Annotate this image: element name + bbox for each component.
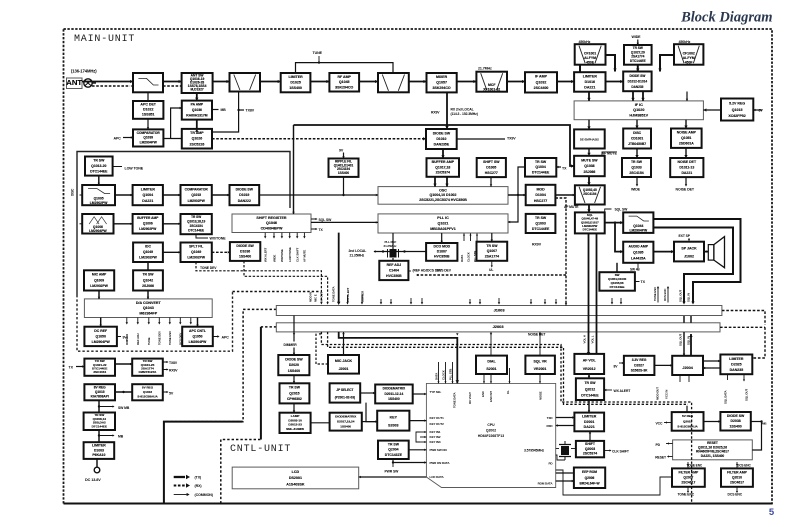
block RF AMP Q1045 xyxy=(329,73,359,92)
wire J2004 to limiter a xyxy=(703,360,720,362)
arrowhead mute 450 xyxy=(587,182,590,185)
wire IFIC to NOISE AMP xyxy=(685,120,687,129)
wire limiter d2025 pin2 xyxy=(743,374,745,380)
arrowhead deemph mute xyxy=(587,153,590,156)
block TR SW Q1008-14 xyxy=(84,413,115,431)
wire refadj label stub xyxy=(408,270,411,272)
svg-text:21.7MHz: 21.7MHz xyxy=(478,67,492,71)
svg-text:J2004: J2004 xyxy=(682,366,693,370)
arrowhead buf osc b xyxy=(445,184,448,187)
wire q1024 tx8v xyxy=(163,361,167,363)
svg-text:(114.3 - 152.3MHz): (114.3 - 152.3MHz) xyxy=(451,112,478,116)
wire audio amp in xyxy=(615,223,623,252)
svg-text:RX9V: RX9V xyxy=(532,243,542,247)
wire IFIC to DISC xyxy=(636,120,638,129)
wire tx sw out xyxy=(635,281,640,283)
junction osc mod xyxy=(517,194,519,196)
block FILTER AMP Q2007 xyxy=(672,468,705,486)
arrowhead q2012 to afvol xyxy=(588,375,590,377)
wire MIXER to MCF xyxy=(457,81,477,83)
wire audio sw4b stub xyxy=(637,263,639,268)
legend common arrowhead xyxy=(187,493,190,496)
wire sql down thick xyxy=(588,233,590,354)
svg-text:LOW TONE: LOW TONE xyxy=(125,167,144,171)
wire NOISE DET stub xyxy=(685,177,687,185)
main/cntl solid step border xyxy=(164,422,243,504)
wire TRSW1033 wide stub xyxy=(636,177,638,186)
antenna connector ANT xyxy=(66,78,82,89)
arrowhead bar1 feed b xyxy=(421,302,423,304)
arrowhead into IF AMP xyxy=(522,80,525,83)
wire BUF1006 to TRSW xyxy=(163,223,181,225)
wire TRSW to LPF1005 xyxy=(98,176,100,185)
svg-text:VCC: VCC xyxy=(656,422,664,426)
svg-text:VCC IN: VCC IN xyxy=(665,390,669,399)
wire jp down xyxy=(366,403,377,422)
wire lowtone label xyxy=(113,166,122,168)
block 5V REG Q1016 xyxy=(132,384,163,400)
arrowhead q2015 lamp xyxy=(293,411,295,413)
main unit bottom solid border xyxy=(64,503,773,505)
wire tx into q1004 xyxy=(556,166,561,168)
block LIMITER D1025 xyxy=(281,73,311,92)
wire bar1 feed a xyxy=(410,298,412,303)
wire pll data pins xyxy=(463,234,465,242)
arrowhead pa tramp xyxy=(195,129,198,132)
block 3.3V REG Q2027 xyxy=(624,356,655,375)
wire bar1 top feed j xyxy=(530,299,532,303)
arrowhead lim2 ific xyxy=(587,98,590,101)
block LIMITER Q1004 xyxy=(133,185,163,205)
wire xtal shift xyxy=(571,448,576,450)
svg-text:LCD DATA: LCD DATA xyxy=(430,475,445,479)
wire DA to APC CNTL xyxy=(197,318,199,327)
arrowhead d1010 buf xyxy=(441,155,444,158)
wire ANT SW to PA AMP xyxy=(196,93,198,101)
arrowhead bar1 feed d xyxy=(611,302,613,304)
arrowhead reset lbl xyxy=(667,455,669,457)
arrowhead shiftreg pin 2 xyxy=(281,236,283,238)
wire crystal to ref adj xyxy=(392,258,394,261)
wire DCS ENC up stub xyxy=(667,288,669,303)
svg-text:NOISE DET: NOISE DET xyxy=(676,188,695,192)
wire TONE DATA jog xyxy=(339,332,458,384)
arrowhead bar2 out c xyxy=(342,333,344,335)
arrowhead lpf lim xyxy=(130,194,132,196)
arrowhead tx q1004 xyxy=(556,166,558,168)
block TR SW Q1004 xyxy=(525,158,556,177)
wire NOISE AMP to NOISE DET xyxy=(685,148,687,158)
wire bar1 top feed k xyxy=(544,299,546,303)
arrowhead into LIM xyxy=(278,80,281,83)
block TR SW Q1021-22 xyxy=(84,359,115,376)
svg-text:DISC: DISC xyxy=(71,188,75,196)
block KEY S2003 xyxy=(377,411,409,431)
wire cpu rxd xyxy=(556,425,575,427)
arrowhead matrix cpu xyxy=(424,393,426,395)
block DIODE SW D1036 xyxy=(230,242,260,261)
svg-text:TR SWQ10332SC4154: TR SWQ10332SC4154 xyxy=(629,160,643,175)
wire AUDIO AMP to SP JACK xyxy=(653,251,674,253)
svg-text:(136-174MHz): (136-174MHz) xyxy=(71,69,97,74)
wire 2nd local to IFIC xyxy=(686,92,688,101)
svg-text:SQL DATA: SQL DATA xyxy=(724,389,728,404)
svg-text:WX ALERT: WX ALERT xyxy=(264,247,268,262)
block EEP ROM Q2006 xyxy=(574,468,605,489)
arrowhead dsw osc xyxy=(376,194,378,196)
block SHIFT Q2003 xyxy=(576,441,604,457)
svg-text:DC VOLT: DC VOLT xyxy=(468,392,472,404)
block DIODE SW D2020 xyxy=(278,355,309,375)
svg-text:SQL IN: SQL IN xyxy=(687,293,691,302)
arrowhead bar1 top feed i xyxy=(479,302,481,304)
wire cpu xtal xyxy=(556,448,559,450)
junction sw mb xyxy=(98,405,100,407)
arrowhead bar1 top feed k xyxy=(544,302,546,304)
block LAMP D2003 xyxy=(280,413,311,433)
wire LPF to ANT SW xyxy=(163,81,182,83)
wire sql sw label line xyxy=(605,209,612,212)
wire tune varactor xyxy=(296,63,394,73)
wire RX dashed ant xyxy=(92,85,130,87)
wire SP JACK to speaker xyxy=(704,251,708,253)
junction d2038 mb xyxy=(760,420,762,422)
svg-text:9V: 9V xyxy=(339,149,344,153)
arrowhead 33 j2004 xyxy=(670,364,672,366)
block NOISE DET D1011-13 xyxy=(670,158,703,177)
wire reset right up xyxy=(752,422,761,451)
arrowhead sql q1044 xyxy=(620,221,623,224)
svg-text:DE-EMPHASIS: DE-EMPHASIS xyxy=(580,138,599,142)
band-pass filter block 1 xyxy=(230,73,261,92)
arrowhead swmb xyxy=(113,405,115,407)
legend tx arrow line xyxy=(174,476,185,478)
arrowhead idc splt xyxy=(178,251,180,253)
wire pll clock pin xyxy=(470,234,472,242)
wire pwr sw label stub xyxy=(392,463,394,468)
wire bar1 feed e xyxy=(620,298,622,303)
block TR SW Q2015 xyxy=(280,383,310,403)
wire DSW1019 to OSC xyxy=(259,194,378,196)
svg-text:WX ALERT: WX ALERT xyxy=(614,389,632,393)
wire lcd to cpu xyxy=(359,476,427,478)
arrowhead da apccntl xyxy=(196,325,198,327)
wire shiftreg to PLL xyxy=(311,221,378,223)
wire cpu xtal b xyxy=(556,455,565,460)
wire trsw wx/tone stub xyxy=(196,234,208,238)
wire mb arrow xyxy=(99,435,113,437)
wire key bundle xyxy=(416,432,420,442)
wire q2012 wx alert xyxy=(604,389,612,391)
arrowhead bar1 top feed l xyxy=(555,302,557,304)
arrowhead trsw dsw xyxy=(636,69,639,72)
arrowhead mic da xyxy=(98,297,100,299)
svg-text:IF AMPQ10322SC4400: IF AMPQ10322SC4400 xyxy=(534,75,549,91)
block AF VOL VR2012 xyxy=(574,354,604,374)
wire q2004 to cpu xyxy=(409,449,427,451)
tone section sub-frame solid xyxy=(77,152,290,296)
wire SQL OUT bar1-bar2 xyxy=(683,316,685,323)
arrowhead apc out xyxy=(217,335,219,337)
block SQL VR VR2001 xyxy=(525,356,555,374)
arrowhead apc comp xyxy=(131,136,133,138)
arrowhead tx out xyxy=(316,228,318,230)
svg-text:ROM DATA: ROM DATA xyxy=(538,482,554,486)
arrowhead sql afvol xyxy=(587,352,591,355)
block SHIFT SW D1005 xyxy=(477,158,506,177)
crystal X1 PLL reference xyxy=(388,249,399,258)
arrowhead dimmer d2020 xyxy=(293,353,295,355)
block LIMITER D1003 xyxy=(84,442,115,459)
apc section frame dashed xyxy=(77,292,233,352)
junction TX8V xyxy=(237,109,239,111)
band-pass filter block 2 xyxy=(378,73,409,92)
wire pllstb pin cpu xyxy=(452,362,454,383)
wire PA AMP to TR AMP xyxy=(196,120,198,129)
svg-text:TONE DEV: TONE DEV xyxy=(158,331,162,345)
svg-text:Block Diagram: Block Diagram xyxy=(680,10,772,26)
arrowhead pll dco xyxy=(440,241,442,243)
arrowhead into DSW xyxy=(620,80,623,83)
svg-text:DCS ENC: DCS ENC xyxy=(728,493,743,497)
arrowhead aamp xyxy=(620,250,623,253)
wire sql down thick2 xyxy=(596,233,598,354)
block TR SW Q1013-20 xyxy=(85,157,113,176)
wire tx into q1021 xyxy=(76,366,84,368)
wire 8v to 3.3reg xyxy=(619,362,624,364)
wire BUFFER AMP to OSC b xyxy=(446,177,448,187)
speaker SP1 xyxy=(708,237,724,268)
arrowhead trsw da xyxy=(147,297,149,299)
wire q2015 to lamp xyxy=(293,403,295,412)
arrowhead bar2 out f xyxy=(539,333,541,335)
junction sql audio xyxy=(614,221,616,223)
svg-text:TX9V: TX9V xyxy=(507,137,516,141)
svg-text:TX: TX xyxy=(641,280,646,284)
block SP JACK J1002 xyxy=(674,242,704,262)
wire DSW down to IFIC a xyxy=(632,91,634,101)
wire cpu txd xyxy=(556,417,575,419)
svg-text:TR SWQ10072SA1774: TR SWQ10072SA1774 xyxy=(485,244,499,259)
wire micjack dashed out xyxy=(316,332,328,364)
wire ripple fil down xyxy=(343,177,345,195)
svg-text:DIMMER: DIMMER xyxy=(360,290,364,302)
wire matrix2 to key xyxy=(362,421,377,423)
arrowhead mod 450 xyxy=(573,194,575,196)
svg-text:DCS ENC: DCS ENC xyxy=(737,464,751,468)
wire IDC to SPLT FIL xyxy=(163,251,181,253)
svg-text:SQL OUT: SQL OUT xyxy=(679,290,683,302)
active filter Q1044 xyxy=(623,212,653,233)
arrowhead q21 q24 xyxy=(130,363,132,365)
svg-text:RX9V: RX9V xyxy=(431,111,440,115)
arrowhead DIMMER xyxy=(126,322,128,324)
block DIAL S2001 xyxy=(476,356,507,374)
arrowhead clock pin xyxy=(469,234,471,236)
junction xtal a xyxy=(382,250,384,252)
svg-text:TUNE: TUNE xyxy=(313,51,323,55)
wire TRSW1027 to DSW xyxy=(637,65,639,72)
wire ul pin cpu xyxy=(509,368,511,383)
svg-text:CLOCK: CLOCK xyxy=(467,251,471,262)
wire shiftreg pin 3 xyxy=(289,233,291,237)
wire lamp to matrix2 xyxy=(311,422,330,424)
svg-text:SQL IN: SQL IN xyxy=(687,336,691,345)
arrowhead wx alert into q2012 xyxy=(604,389,606,391)
arrowhead rxd xyxy=(556,424,558,426)
block TR SW Q2004 xyxy=(378,441,409,459)
arrowhead fa1 top xyxy=(687,463,689,465)
arrowhead pd reset xyxy=(667,442,669,444)
svg-text:21.25MHz: 21.25MHz xyxy=(384,244,397,248)
block TR AMP Q1026 xyxy=(182,129,212,149)
arrowhead bar1 top feed j xyxy=(530,302,532,304)
svg-text:5: 5 xyxy=(769,507,775,518)
svg-text:KEY IN3: KEY IN3 xyxy=(430,440,441,444)
wire bar1 top feed g xyxy=(390,299,392,303)
svg-text:WIDE: WIDE xyxy=(272,255,276,262)
svg-text:AF OUT: AF OUT xyxy=(320,292,324,302)
block DCO MOD D1007 xyxy=(426,243,457,261)
block COMPARATOR Q1015 xyxy=(181,185,212,205)
wire sw mb arrow xyxy=(99,406,113,408)
block LIMITER D1016 xyxy=(574,72,605,92)
arrowhead tx q1021 xyxy=(82,365,84,367)
wire SQL IN to J2004 xyxy=(690,334,692,356)
wire CF1001 elbow to DSW xyxy=(606,55,616,72)
ceramic filter CF1002 xyxy=(674,44,703,64)
svg-text:TYP SEL: TYP SEL xyxy=(430,390,442,394)
wire shiftreg pin 4 xyxy=(296,233,298,237)
svg-text:TONE DATA: TONE DATA xyxy=(453,392,457,408)
arrowhead wxa bar xyxy=(346,302,348,304)
dashed border segment left of bar1 xyxy=(165,309,276,421)
wire osc-mod down to PLL xyxy=(508,195,518,222)
wire ext sp stub xyxy=(688,240,690,242)
svg-text:VOL L: VOL L xyxy=(591,335,595,343)
svg-text:WX/TONE: WX/TONE xyxy=(280,249,284,262)
arrowhead 2ndlocal xyxy=(686,99,688,101)
wire MOD to 450fil xyxy=(555,194,575,196)
block MUTE SW Q1038 xyxy=(574,156,605,176)
wire LIM2 down to IFIC xyxy=(588,92,590,101)
arrowhead buf osc a xyxy=(433,184,436,187)
arrowhead cf1001 dsw xyxy=(613,69,616,72)
arrowhead cpu lcd xyxy=(359,476,361,478)
svg-text:WX ALERT: WX ALERT xyxy=(346,287,350,302)
wire APC DET to COMP xyxy=(147,119,149,130)
block APC DET D1022 xyxy=(133,101,163,119)
active low-pass filter Q1005 xyxy=(82,185,115,205)
arrowhead 5v d2038 xyxy=(718,420,720,422)
wire clock pin cpu xyxy=(445,362,447,383)
arrowhead tx8v xyxy=(167,361,169,363)
arrowhead ific deemph xyxy=(587,126,590,129)
arrowhead 9v ripple xyxy=(342,156,344,158)
svg-text:KEY IN1: KEY IN1 xyxy=(430,430,441,434)
wire MUTE SW to 450fil xyxy=(588,176,590,185)
block MOD D1004 xyxy=(526,185,556,205)
wire sqlvr to cpu xyxy=(539,374,541,383)
svg-text:WIDE: WIDE xyxy=(631,188,641,192)
wire dial to cpu a xyxy=(483,374,485,383)
wire TONE DATA main xyxy=(338,233,340,302)
wire 8vreg down xyxy=(98,400,100,412)
if system ic Q1020 xyxy=(574,101,703,120)
arrowhead clockpin cpu xyxy=(444,381,446,383)
svg-text:CLK SHIFT: CLK SHIFT xyxy=(612,450,630,454)
block FILTER AMP Q2010 xyxy=(721,468,753,486)
arrowhead into BPF1 xyxy=(227,80,230,83)
rx bundle dash2 xyxy=(328,332,688,404)
svg-text:RX9V: RX9V xyxy=(169,369,178,373)
arrowhead 5v xyxy=(167,391,169,393)
block TR SW Q2012 xyxy=(576,378,604,400)
svg-text:SW MB: SW MB xyxy=(118,406,130,410)
arrowhead shiftreg pin 0 xyxy=(264,236,266,238)
wire D1010 to TX9V xyxy=(457,138,505,140)
wire shift clk out xyxy=(604,450,610,452)
wire long af line xyxy=(294,125,575,166)
block MIC AMP Q1009 xyxy=(84,270,114,290)
wire cpu to filteramps xyxy=(556,470,672,495)
wire 5vreg out xyxy=(163,391,167,393)
wire limiter d2025 pins xyxy=(727,374,729,380)
arrowhead ul xyxy=(491,266,493,268)
svg-text:RXD: RXD xyxy=(546,424,553,428)
block TR SW Q1007 xyxy=(477,242,508,261)
arrowhead bar1 feed a xyxy=(410,302,412,304)
arrowhead shiftreg pin 4 xyxy=(296,236,298,238)
svg-text:(REF ADJ: (REF ADJ xyxy=(413,269,428,273)
block JP SELECT P2001 xyxy=(330,383,361,402)
arrowhead sreg pll xyxy=(376,221,378,223)
block ANT SW Q1016-19 xyxy=(182,73,213,93)
arrowhead shiftsw osc xyxy=(490,184,492,186)
arrowhead tonedata bar1 xyxy=(337,302,341,305)
arrowhead lim comp xyxy=(178,194,180,196)
svg-text:3.579545MHz: 3.579545MHz xyxy=(524,449,544,453)
wire q2012 down xyxy=(588,400,590,413)
svg-text:NOISE DET: NOISE DET xyxy=(528,332,546,336)
svg-text:TXD: TXD xyxy=(547,416,554,420)
wire key in stub2 xyxy=(420,436,426,438)
svg-text:ENC INT: ENC INT xyxy=(489,391,493,402)
svg-text:TX: TX xyxy=(69,366,74,370)
svg-text:PD: PD xyxy=(655,443,660,447)
arrowhead reg ific xyxy=(703,108,706,111)
wire filteramp2 top xyxy=(736,462,738,468)
wire micjack up xyxy=(343,332,345,355)
svg-text:APC: APC xyxy=(114,137,122,141)
wire SPLT to D1036 dashed xyxy=(212,251,230,253)
arrowhead disc trsw xyxy=(635,155,638,158)
wire key in stub1 xyxy=(420,431,426,433)
wire dial to cpu b xyxy=(490,374,492,383)
svg-text:(COMMON): (COMMON) xyxy=(195,493,214,497)
wire crystal row xyxy=(374,251,426,253)
arrowhead matrix2 key xyxy=(375,420,377,422)
svg-text:CNTL-UNIT: CNTL-UNIT xyxy=(230,444,291,455)
svg-text:UL: UL xyxy=(489,268,493,272)
wire CF1001 up from LIM2 xyxy=(579,65,581,73)
arrowhead bar2 out d xyxy=(456,333,458,335)
svg-text:J2003: J2003 xyxy=(493,324,505,329)
arrowhead into LPF xyxy=(130,80,133,83)
block AUDIO AMP Q1035 xyxy=(623,242,653,263)
wire AF MUTE into mutesw xyxy=(602,152,617,156)
block DE-EMPHASIS xyxy=(574,129,605,148)
